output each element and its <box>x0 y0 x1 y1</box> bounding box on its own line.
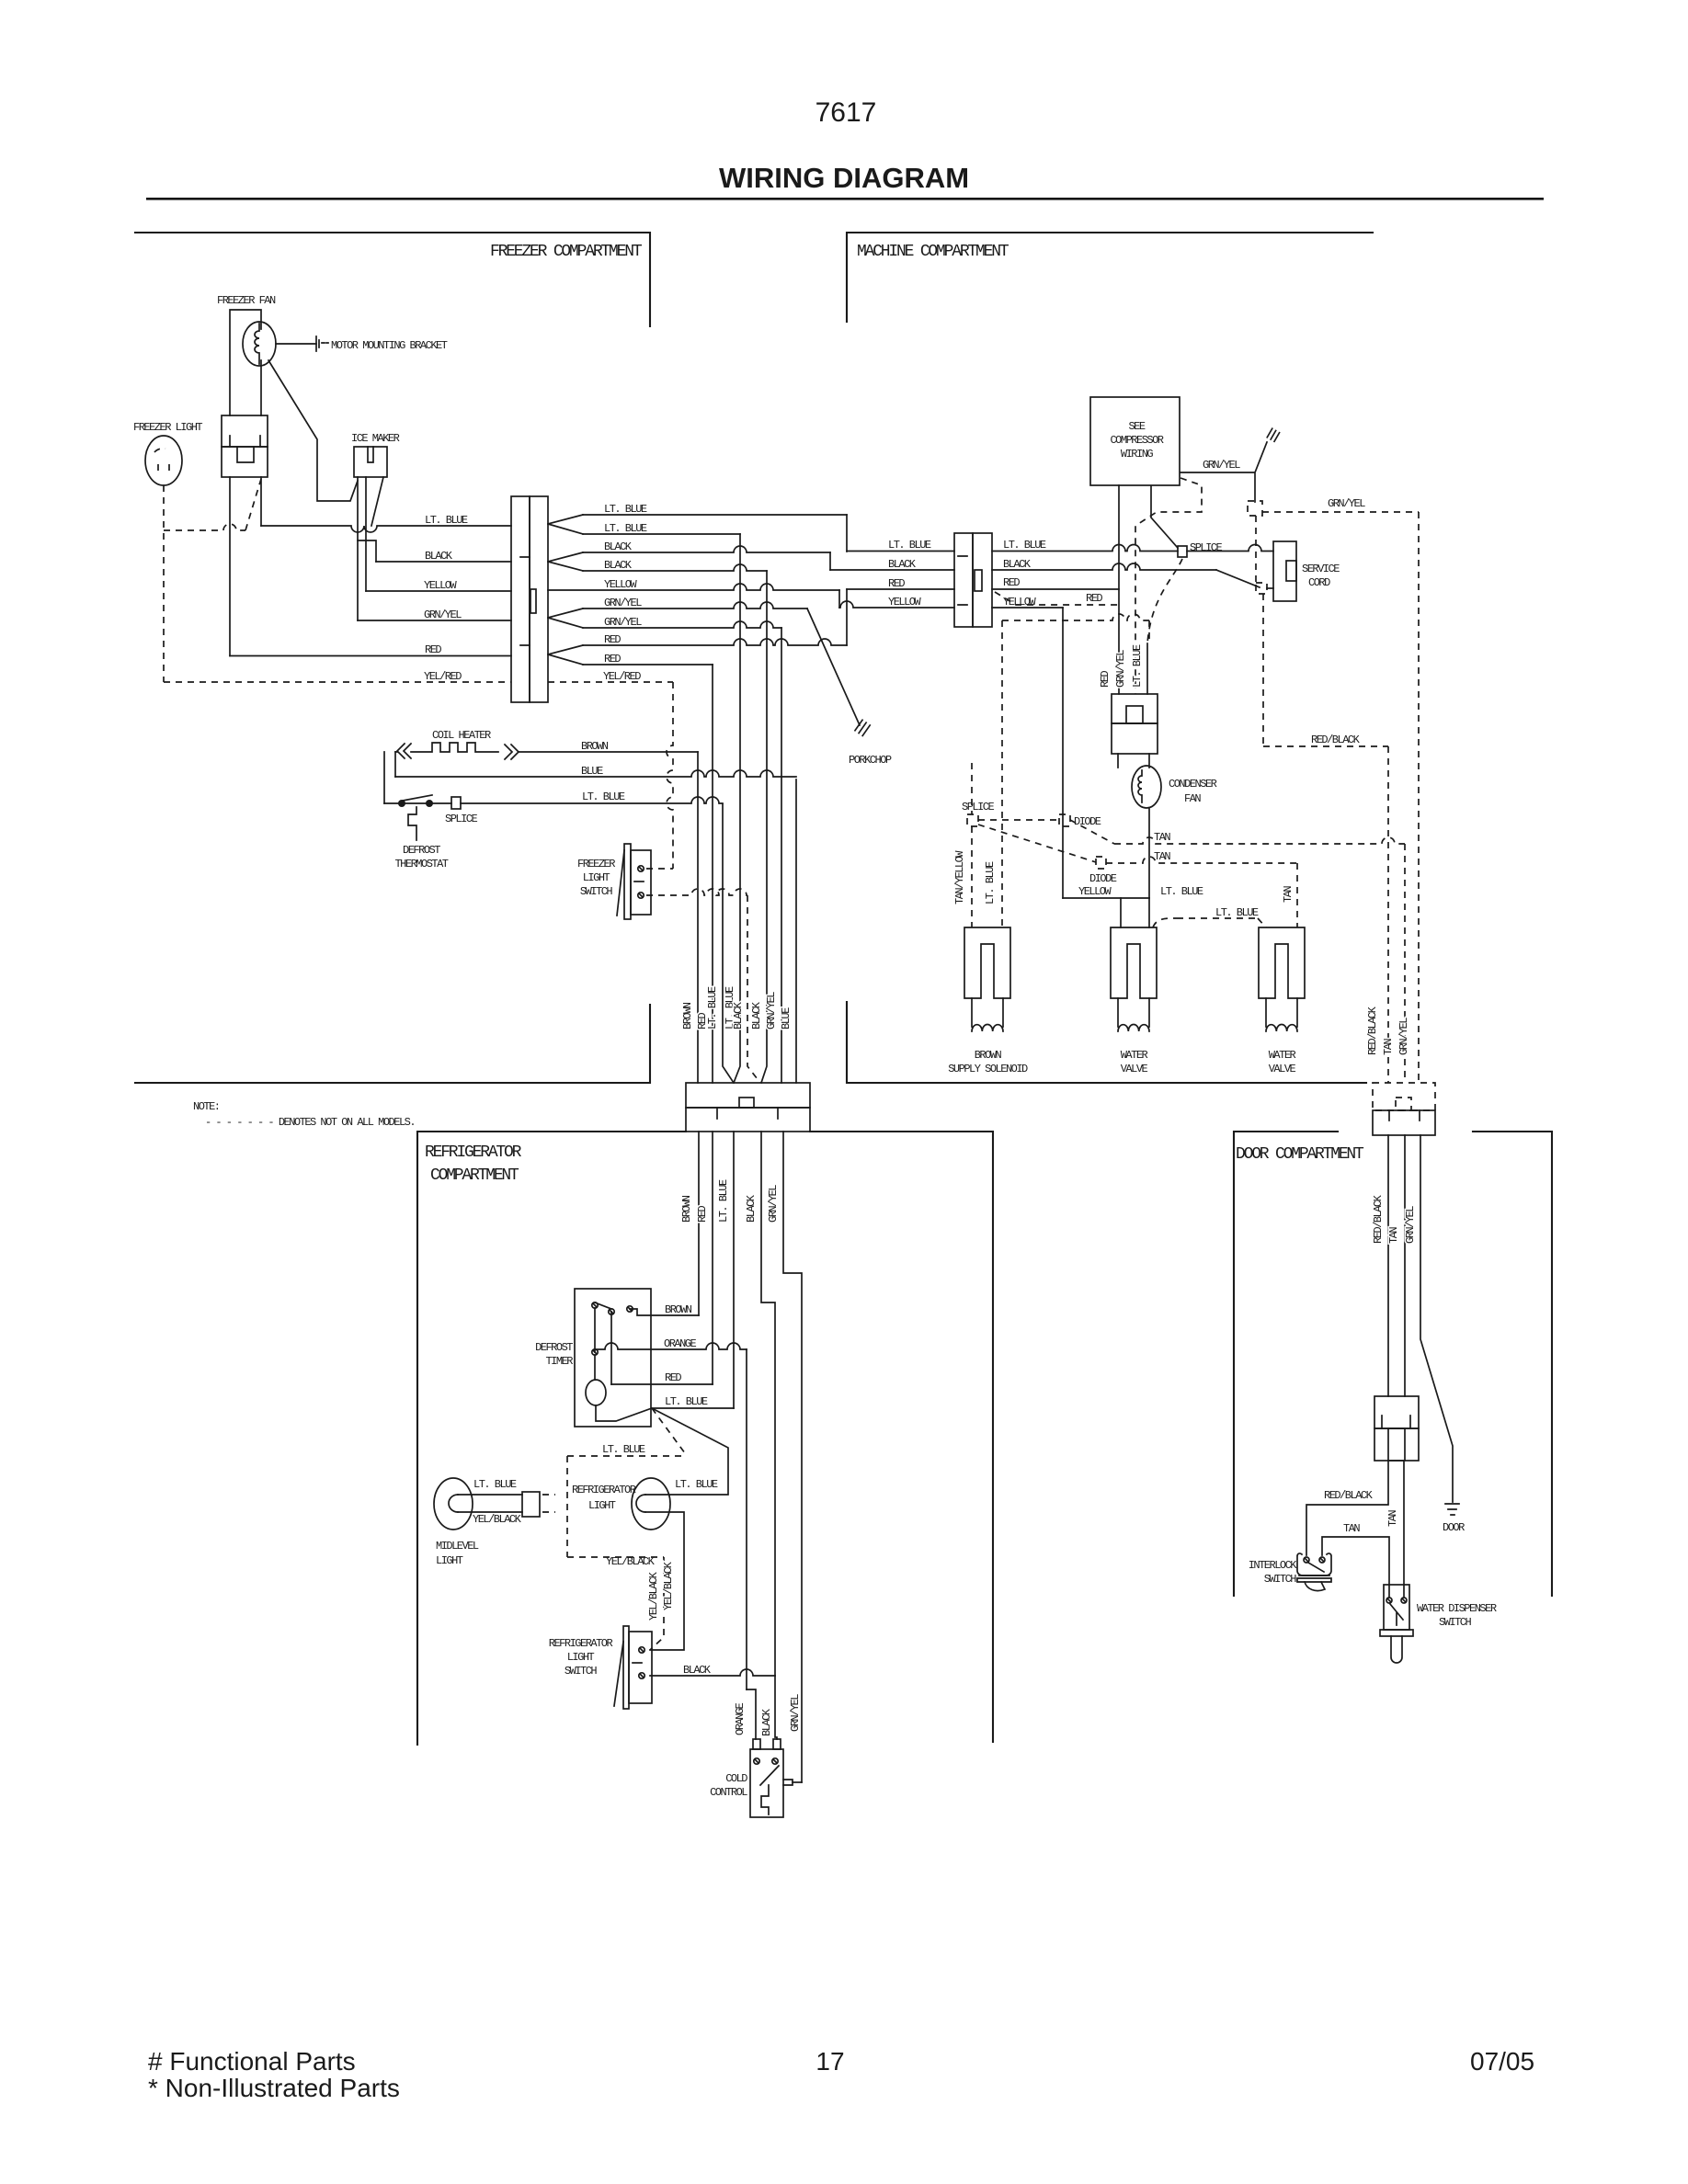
svg-text:BLACK: BLACK <box>888 558 917 571</box>
ice maker pin1 lower branch to GRN/YEL <box>357 540 359 620</box>
svg-text:YELLOW: YELLOW <box>604 578 638 591</box>
svg-text:BLACK: BLACK <box>750 1001 763 1029</box>
svg-text:VALVE: VALVE <box>1269 1063 1296 1075</box>
svg-text:TIMER: TIMER <box>545 1355 573 1368</box>
svg-text:LT. BLUE: LT. BLUE <box>582 791 625 803</box>
connector fanout LT. BLUE pair <box>548 515 583 534</box>
svg-text:FREEZER COMPARTMENT: FREEZER COMPARTMENT <box>490 243 643 261</box>
svg-text:MIDLEVEL: MIDLEVEL <box>436 1540 479 1553</box>
svg-text:RED/BLACK: RED/BLACK <box>1366 1006 1379 1055</box>
svg-text:BLUE: BLUE <box>581 765 603 778</box>
svg-text:REFRIGERATOR: REFRIGERATOR <box>549 1637 613 1650</box>
freezer light switch plate <box>624 844 631 919</box>
svg-text:FREEZER: FREEZER <box>577 858 615 870</box>
svg-text:YELLOW: YELLOW <box>424 579 458 592</box>
svg-text:GRN/YEL: GRN/YEL <box>604 597 642 609</box>
svg-text:LT. BLUE: LT. BLUE <box>706 986 719 1029</box>
svg-text:FAN: FAN <box>1184 792 1201 805</box>
svg-text:BROWN: BROWN <box>581 740 609 753</box>
svg-text:DIODE: DIODE <box>1074 815 1101 828</box>
lt. blue apex diagonals <box>645 1408 728 1495</box>
svg-text:SWITCH: SWITCH <box>1264 1573 1297 1586</box>
defrost timer terminals <box>592 1302 598 1308</box>
svg-text:BLACK: BLACK <box>604 540 633 553</box>
door compartment boundary <box>1234 1132 1552 1596</box>
svg-text:RED: RED <box>425 643 441 656</box>
svg-text:COMPRESSOR: COMPRESSOR <box>1110 434 1163 447</box>
svg-text:LIGHT: LIGHT <box>567 1651 595 1664</box>
svg-text:CONTROL: CONTROL <box>710 1786 747 1799</box>
svg-text:BLACK: BLACK <box>425 550 453 563</box>
splice RED/BLACK (dashed) <box>1256 583 1267 594</box>
svg-text:LT. BLUE: LT. BLUE <box>888 539 931 552</box>
svg-text:TAN: TAN <box>1382 1039 1395 1055</box>
diode 1 (dashed) <box>1059 814 1070 826</box>
condenser fan motor <box>1118 754 1149 768</box>
svg-text:LT. BLUE: LT. BLUE <box>425 514 468 527</box>
svg-text:RED: RED <box>888 577 905 590</box>
wire LT. BLUE to fan connector <box>1146 643 1148 694</box>
wire BROWN vertical <box>697 752 699 1083</box>
svg-text:RED: RED <box>1086 592 1102 605</box>
svg-text:LT. BLUE: LT. BLUE <box>1131 644 1144 688</box>
motor mounting bracket symbol <box>316 336 319 351</box>
svg-text:YEL/BLACK: YEL/BLACK <box>647 1571 660 1621</box>
water dispenser switch <box>1384 1585 1409 1630</box>
wire LT. BLUE vertical (refrigerator) <box>733 1132 735 1408</box>
svg-text:LT. BLUE: LT. BLUE <box>1215 906 1259 919</box>
service cord <box>1273 541 1296 601</box>
svg-text:RED: RED <box>696 1206 709 1223</box>
svg-text:THERMOSTAT: THERMOSTAT <box>394 858 448 870</box>
svg-text:TAN/YELLOW: TAN/YELLOW <box>953 850 966 904</box>
svg-text:WIRING DIAGRAM: WIRING DIAGRAM <box>719 162 969 194</box>
compressor wire GRN/YEL dashed to fan <box>1135 478 1202 694</box>
door harness connector <box>1373 1083 1435 1110</box>
connector fanout GRN/YEL pair <box>548 609 583 628</box>
svg-text:GRN/YEL: GRN/YEL <box>789 1694 802 1732</box>
midlevel connector <box>522 1492 540 1517</box>
svg-text:WATER DISPENSER: WATER DISPENSER <box>1417 1602 1497 1615</box>
interlock switch <box>1304 1557 1309 1563</box>
freezer fan duct <box>230 310 261 415</box>
svg-text:ICE MAKER: ICE MAKER <box>351 432 400 445</box>
svg-text:LT. BLUE: LT. BLUE <box>665 1395 708 1408</box>
svg-text:RED/BLACK: RED/BLACK <box>1311 734 1361 746</box>
compressor ground <box>1267 428 1272 438</box>
wire LT. BLUE vertical (row2) <box>734 534 740 1083</box>
svg-text:CONDENSER: CONDENSER <box>1169 778 1217 791</box>
coil heater element <box>397 744 411 758</box>
wire RED vertical (refrigerator) <box>712 1132 713 1384</box>
machine connector <box>954 533 973 627</box>
diode 2 (dashed) <box>1096 857 1106 869</box>
svg-text:LIGHT: LIGHT <box>588 1499 616 1512</box>
wire YEL/BLACK dashed vertical <box>650 1557 664 1650</box>
svg-text:DEFROST: DEFROST <box>535 1341 573 1354</box>
svg-text:SWITCH: SWITCH <box>565 1665 598 1678</box>
splice GRN/YEL (dashed) <box>1248 501 1262 516</box>
wire BLACK vertical (dashed) <box>747 895 760 1083</box>
refrigerator compartment boundary <box>417 1132 993 1745</box>
svg-text:YEL/BLACK: YEL/BLACK <box>662 1561 675 1610</box>
fan duct left wire to RED row <box>229 477 231 656</box>
freezer light lead to switch circuit (dashed) <box>164 524 245 530</box>
svg-text:GRN/YEL: GRN/YEL <box>604 616 642 629</box>
svg-text:RED/BLACK: RED/BLACK <box>1324 1489 1374 1502</box>
svg-text:DOOR COMPARTMENT: DOOR COMPARTMENT <box>1236 1145 1364 1164</box>
svg-text:DEFROST: DEFROST <box>403 844 440 857</box>
svg-text:CORD: CORD <box>1308 576 1330 589</box>
svg-text:COMPARTMENT: COMPARTMENT <box>430 1166 519 1185</box>
svg-text:SERVICE: SERVICE <box>1302 563 1340 575</box>
condenser fan lower wire <box>1148 809 1150 898</box>
svg-text:BROWN: BROWN <box>665 1303 692 1316</box>
see compressor wiring box <box>1090 397 1180 485</box>
porkchop ground <box>855 720 862 730</box>
wire BLUE vertical <box>795 779 797 1083</box>
svg-text:GRN/YEL: GRN/YEL <box>1114 650 1127 688</box>
svg-text:LT. BLUE: LT. BLUE <box>984 861 997 904</box>
svg-text:TAN: TAN <box>1387 1227 1400 1244</box>
svg-text:SPLICE: SPLICE <box>445 813 478 825</box>
svg-text:PORKCHOP: PORKCHOP <box>849 754 892 767</box>
compressor wire to splice <box>1151 486 1178 548</box>
svg-text:ORANGE: ORANGE <box>734 1702 747 1735</box>
condenser fan connector <box>1112 694 1158 723</box>
svg-text:FREEZER LIGHT: FREEZER LIGHT <box>133 421 202 434</box>
svg-text:COIL HEATER: COIL HEATER <box>432 729 491 742</box>
svg-text:REFRIGERATOR: REFRIGERATOR <box>572 1484 636 1496</box>
svg-text:WATER: WATER <box>1121 1049 1148 1062</box>
wire switch to YEL/RED (dashed) <box>646 868 673 870</box>
brown supply solenoid <box>964 927 1010 998</box>
svg-text:RED: RED <box>1003 576 1020 589</box>
svg-text:LT. BLUE: LT. BLUE <box>717 1179 730 1223</box>
svg-text:BLACK: BLACK <box>1003 558 1032 571</box>
machine compartment boundary <box>847 233 1373 1083</box>
svg-text:SWITCH: SWITCH <box>580 885 613 898</box>
svg-text:YELLOW: YELLOW <box>1078 885 1112 898</box>
svg-text:BROWN: BROWN <box>975 1049 1002 1062</box>
ice maker pin 3 <box>371 477 383 526</box>
svg-text:GRN/YEL: GRN/YEL <box>1328 497 1365 510</box>
wire BLACK vertical (refrigerator) <box>761 1132 775 1676</box>
svg-text:YELLOW: YELLOW <box>1003 596 1037 609</box>
wire TAN (door) <box>1404 1135 1406 1396</box>
connector fanout RED pair <box>548 645 583 665</box>
coil heater left loops <box>384 752 395 803</box>
freezer compartment boundary <box>135 233 650 1083</box>
wire RED vertical <box>712 665 713 1083</box>
ice maker pin 1 <box>358 477 376 562</box>
svg-text:RED: RED <box>604 633 621 646</box>
refrigerator light lower wire <box>645 1512 684 1650</box>
dashed branch row <box>1002 614 1149 620</box>
svg-text:RED: RED <box>604 653 621 665</box>
svg-text:DIODE: DIODE <box>1089 872 1117 885</box>
freezer light lead YEL/RED (dashed) <box>163 485 165 682</box>
water valve 1 <box>1111 927 1157 998</box>
svg-text:# Functional Parts: # Functional Parts <box>148 2047 356 2076</box>
svg-text:SPLICE: SPLICE <box>1190 541 1223 554</box>
svg-text:BROWN: BROWN <box>681 1002 694 1029</box>
svg-text:TAN: TAN <box>1154 850 1170 863</box>
splice on LT. BLUE <box>1178 546 1187 557</box>
wire BLACK vertical (row2) <box>761 571 767 1083</box>
svg-text:GRN/YEL: GRN/YEL <box>424 609 462 621</box>
svg-text:GRN/YEL: GRN/YEL <box>1404 1206 1417 1244</box>
svg-text:LT. BLUE: LT. BLUE <box>1160 885 1203 898</box>
freezer light switch <box>631 850 651 915</box>
svg-text:LT. BLUE: LT. BLUE <box>602 1443 645 1456</box>
svg-text:MOTOR MOUNTING BRACKET: MOTOR MOUNTING BRACKET <box>331 339 448 352</box>
svg-text:WATER: WATER <box>1269 1049 1296 1062</box>
ice maker <box>354 447 387 477</box>
svg-text:GRN/YEL: GRN/YEL <box>1203 459 1240 472</box>
service cord label wires <box>1255 516 1257 583</box>
svg-text:YEL/BLACK: YEL/BLACK <box>473 1513 522 1526</box>
svg-text:ORANGE: ORANGE <box>664 1337 697 1350</box>
svg-text:07/05: 07/05 <box>1470 2047 1534 2076</box>
svg-text:SPLICE: SPLICE <box>962 801 995 813</box>
svg-text:COLD: COLD <box>725 1772 747 1785</box>
wire RED/BLACK (door) <box>1387 1135 1389 1396</box>
dashed wire splice feed <box>971 763 973 814</box>
heading rule <box>146 198 1544 200</box>
svg-text:LT. BLUE: LT. BLUE <box>1003 539 1046 552</box>
wire ORANGE jog <box>747 1689 756 1739</box>
svg-text:WIRING: WIRING <box>1121 448 1154 461</box>
svg-text:INTERLOCK: INTERLOCK <box>1249 1559 1298 1572</box>
svg-text:BLACK: BLACK <box>760 1708 773 1736</box>
svg-text:LIGHT: LIGHT <box>436 1554 463 1567</box>
svg-text:YEL/RED: YEL/RED <box>603 670 641 683</box>
wire BROWN vertical (refrigerator) <box>698 1132 700 1315</box>
svg-text:BROWN: BROWN <box>680 1195 693 1223</box>
defrost timer motor <box>586 1380 606 1405</box>
svg-text:- - - - - - - DENOTES NOT ON A: - - - - - - - DENOTES NOT ON ALL MODELS. <box>205 1116 415 1129</box>
svg-text:YEL/RED: YEL/RED <box>424 670 462 683</box>
dashed wire splice to diode1 <box>978 819 1059 821</box>
svg-text:LT. BLUE: LT. BLUE <box>473 1478 517 1491</box>
ice maker pin 2 <box>365 477 367 591</box>
wire GRN/YEL vertical <box>781 628 782 1083</box>
wire BLACK jog <box>775 1676 777 1739</box>
refrigerator light <box>632 1478 670 1530</box>
svg-text:BLACK: BLACK <box>745 1194 758 1223</box>
svg-text:GRN/YEL: GRN/YEL <box>767 1185 780 1223</box>
svg-text:DOOR: DOOR <box>1443 1521 1465 1534</box>
svg-text:REFRIGERATOR: REFRIGERATOR <box>425 1143 522 1162</box>
splice (solenoid, dashed) <box>967 814 978 826</box>
wire GRN/YEL (door) <box>1420 1135 1453 1502</box>
connector fanout BLACK pair <box>548 552 583 571</box>
water valve 2 <box>1259 927 1305 998</box>
freezer fan motor wire to ice maker <box>268 360 358 501</box>
svg-text:RED/BLACK: RED/BLACK <box>1372 1194 1385 1244</box>
refrigerator harness connector <box>686 1083 810 1108</box>
freezer harness connector <box>511 496 530 702</box>
wire switch BLACK (dashed) <box>646 889 747 895</box>
door ground <box>1445 1504 1459 1515</box>
svg-text:* Non-Illustrated Parts: * Non-Illustrated Parts <box>148 2074 400 2102</box>
wire TAN/YELLOW to solenoid <box>971 826 973 927</box>
svg-text:LT. BLUE: LT. BLUE <box>604 522 647 535</box>
freezer fan connector <box>222 415 268 447</box>
svg-text:BLACK: BLACK <box>732 1001 745 1029</box>
compressor wire to condenser fan (RED) <box>1118 485 1120 694</box>
svg-text:BLACK: BLACK <box>604 559 633 572</box>
motor mounting bracket lead <box>276 343 316 345</box>
svg-text:BLACK: BLACK <box>683 1664 712 1677</box>
door mid connector <box>1374 1396 1419 1428</box>
cold control <box>750 1749 783 1817</box>
wire LT.BLUE dashed vertical to solenoid <box>1001 620 1003 927</box>
freezer light <box>145 436 182 485</box>
svg-text:7617: 7617 <box>815 97 877 128</box>
wire LT. BLUE vertical (heater) <box>723 804 734 1083</box>
dashed wire splice to diode2 <box>978 825 1096 862</box>
defrost timer box <box>575 1289 651 1427</box>
svg-text:SEE: SEE <box>1128 420 1145 433</box>
svg-text:TAN: TAN <box>1282 886 1295 903</box>
svg-text:TAN: TAN <box>1154 831 1170 844</box>
svg-text:LIGHT: LIGHT <box>583 871 610 884</box>
svg-text:TAN: TAN <box>1386 1510 1399 1527</box>
svg-text:LT. BLUE: LT. BLUE <box>604 503 647 516</box>
refrigerator light switch plate <box>623 1626 629 1709</box>
svg-text:GRN/YEL: GRN/YEL <box>765 992 778 1029</box>
splice (defrost thermostat) <box>451 797 461 809</box>
defrost thermostat <box>398 800 405 807</box>
refrigerator light switch <box>629 1632 652 1703</box>
wire GRN/YEL into cold control <box>793 1781 802 1783</box>
wire GRN/YEL vertical (refrigerator) <box>783 1132 802 1782</box>
fan duct right wire to LT.BLUE row <box>260 477 262 526</box>
svg-text:TAN: TAN <box>1343 1522 1360 1535</box>
svg-text:LT. BLUE: LT. BLUE <box>675 1478 718 1491</box>
svg-text:17: 17 <box>815 2047 844 2076</box>
svg-text:SUPPLY SOLENOID: SUPPLY SOLENOID <box>948 1063 1028 1075</box>
svg-text:FREEZER FAN: FREEZER FAN <box>217 294 276 307</box>
svg-text:MACHINE COMPARTMENT: MACHINE COMPARTMENT <box>857 243 1009 261</box>
svg-text:VALVE: VALVE <box>1121 1063 1148 1075</box>
svg-text:RED: RED <box>665 1371 681 1384</box>
svg-text:GRN/YEL: GRN/YEL <box>1397 1018 1410 1055</box>
svg-text:YELLOW: YELLOW <box>888 596 922 609</box>
svg-text:BLUE: BLUE <box>780 1007 793 1029</box>
svg-text:SWITCH: SWITCH <box>1439 1616 1472 1629</box>
freezer fan motor <box>243 322 276 366</box>
svg-text:NOTE:: NOTE: <box>193 1100 220 1113</box>
svg-text:RED: RED <box>1099 671 1112 688</box>
midlevel light <box>434 1478 473 1530</box>
